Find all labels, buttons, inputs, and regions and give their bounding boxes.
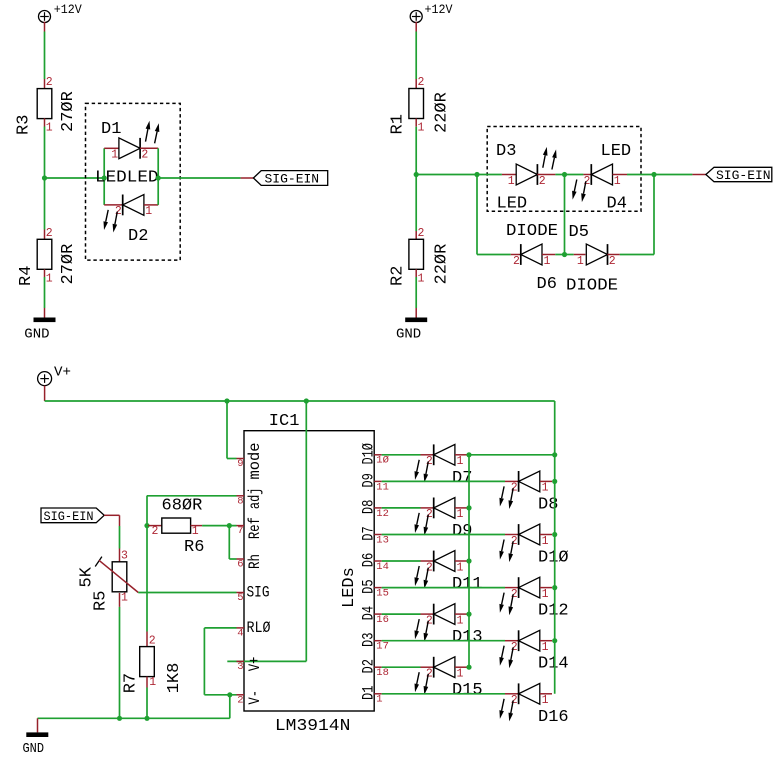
svg-text:2: 2 (237, 694, 243, 706)
IC1 left pin stub 2 (237, 694, 245, 696)
svg-text:1: 1 (542, 482, 549, 495)
ground symbol (top-left) (34, 318, 56, 323)
svg-text:D7: D7 (359, 526, 377, 541)
power symbol V+ (38, 372, 52, 386)
svg-text:2: 2 (46, 76, 53, 89)
wire V+ rail (45, 400, 555, 402)
pin 2 stub of LED D12 (505, 587, 519, 589)
svg-text:1: 1 (542, 694, 549, 707)
svg-text:1: 1 (418, 273, 425, 286)
junction R5 at GND rail (117, 716, 122, 721)
IC1 right pin stub 1 (374, 693, 382, 695)
junction pin2/GND branch (227, 692, 232, 697)
wire D4 to right riser (627, 174, 654, 176)
wire lower row left (477, 254, 511, 256)
wire R2 to GND (415, 277, 417, 308)
svg-text:R7: R7 (122, 673, 141, 693)
pin 1 stub of LED D15 (455, 666, 468, 668)
junction left of LED pair (102, 175, 107, 180)
wiper arrow of R5 (99, 560, 138, 592)
svg-text:DIODE: DIODE (506, 222, 558, 241)
wire middle node to D4 (565, 174, 584, 176)
svg-text:2: 2 (609, 255, 616, 268)
svg-text:1: 1 (457, 508, 464, 521)
LED D2 (123, 195, 144, 216)
wire pin to LED D14 (382, 640, 505, 642)
svg-text:1: 1 (192, 525, 199, 538)
wire left side of LED pair (103, 148, 105, 205)
svg-text:1: 1 (544, 255, 551, 268)
wire anode rail column 2 / V+ riser (554, 401, 556, 694)
wire pin2 node to GND rail (229, 695, 231, 719)
wire pin 4 down (203, 628, 205, 695)
LED D16 (519, 683, 540, 704)
pin 1 stub of D5 (574, 254, 586, 256)
svg-text:D1Ø: D1Ø (538, 549, 569, 568)
svg-text:3: 3 (121, 550, 128, 563)
LED D8 (519, 471, 540, 492)
junction D14 anode on rail (552, 638, 557, 643)
light arrows of D3 (543, 147, 557, 170)
pin stub of SIG-EIN flag (left) (241, 177, 254, 179)
svg-text:R6: R6 (184, 538, 204, 557)
IC1 left pin stub 9 (237, 458, 245, 460)
LED D13 (434, 604, 455, 625)
wire vertical R6/R7 net (146, 496, 148, 632)
junction middle of D3/D4 (562, 172, 567, 177)
pin 2 stub of R2 (415, 231, 417, 239)
ground symbol (top-right) (405, 318, 427, 323)
svg-text:2: 2 (46, 227, 53, 240)
svg-text:6: 6 (237, 559, 243, 571)
wire R3 to node (44, 127, 46, 179)
IC1 left pin stub 7 (237, 525, 245, 527)
wire pin to LED D8 (382, 480, 505, 482)
svg-text:1: 1 (111, 149, 118, 162)
wire right side of LED pair (157, 148, 159, 205)
svg-text:7: 7 (237, 525, 243, 537)
svg-text:D1: D1 (359, 686, 377, 701)
trimmer arrow end bar of R5 (95, 557, 102, 567)
pin 1 stub of LED D1&#216; (540, 534, 552, 536)
wire R5 wiper to pin 5 (138, 592, 236, 594)
svg-text:2: 2 (418, 227, 425, 240)
svg-text:1: 1 (508, 175, 515, 188)
wire pin to LED D16 (382, 693, 505, 695)
pin 3 stub of R5 (119, 549, 121, 562)
svg-text:R3: R3 (15, 115, 34, 135)
svg-text:R4: R4 (17, 266, 36, 286)
pin 2 stub of R1 (415, 79, 417, 89)
light arrows of D11 (415, 566, 429, 589)
pin 2 stub of D1 (140, 147, 158, 149)
junction D8 anode on rail (552, 479, 557, 484)
wire node to LED network (416, 174, 477, 176)
pin 2 stub of LED D11 (421, 560, 434, 562)
pin wire from +12V symbol (right) (415, 22, 417, 32)
wire R1 to node (415, 127, 417, 175)
IC1 right pin stub 10 (374, 454, 382, 456)
pin 2 stub of D6 (511, 254, 521, 256)
svg-text:2: 2 (152, 525, 159, 538)
svg-text:Rh: Rh (246, 554, 264, 569)
svg-text:D13: D13 (452, 628, 483, 647)
pin 1 stub of R3 (44, 118, 46, 126)
svg-text:D14: D14 (538, 655, 569, 674)
wire LED pair to SIG-EIN flag (158, 177, 240, 179)
wire node to LED pair (45, 177, 105, 179)
junction D15 anode on rail (466, 665, 471, 670)
wire anode rail column 1 (468, 455, 470, 667)
svg-text:68ØR: 68ØR (162, 497, 203, 516)
pin 2 stub of D3 (537, 174, 555, 176)
junction link at V+ rail (552, 452, 557, 457)
junction D1&#216; anode on rail (552, 532, 557, 537)
pin 1 stub of R1 (415, 119, 417, 127)
svg-text:17: 17 (376, 641, 389, 653)
wire branch to pin 6 (229, 558, 236, 560)
pin 2 stub of LED D15 (421, 666, 434, 668)
LED D12 (519, 577, 540, 598)
LED D9 (434, 498, 455, 519)
pin wire from V+ symbol (44, 386, 46, 401)
svg-text:1: 1 (542, 641, 549, 654)
svg-text:RLØ: RLØ (247, 619, 271, 637)
pin 1 stub of R2 (415, 269, 417, 277)
svg-text:R2: R2 (389, 266, 408, 286)
svg-text:D5: D5 (569, 223, 589, 242)
svg-text:2: 2 (418, 76, 425, 89)
net flag SIG-EIN (top-left) (253, 171, 327, 186)
svg-text:1: 1 (457, 614, 464, 627)
pin 1 stub of D3 (502, 174, 516, 176)
wire pin to LED D15 (382, 666, 421, 668)
pin 1 stub of D1 (104, 147, 120, 149)
pin 1 stub of R6 (191, 525, 203, 527)
svg-text:SIG-EIN: SIG-EIN (265, 172, 320, 187)
svg-text:SIG-EIN: SIG-EIN (44, 509, 94, 524)
pin 1 stub of LED D9 (455, 507, 468, 509)
svg-text:GND: GND (24, 326, 49, 342)
wire pin 4 horizontal (204, 627, 236, 629)
wire pin to LED D12 (382, 587, 505, 589)
resistor R4 body (37, 239, 52, 269)
wire R4 to GND (44, 277, 46, 308)
svg-text:D6: D6 (359, 553, 377, 568)
IC1 right pin stub 13 (374, 534, 382, 536)
svg-text:D6: D6 (537, 275, 557, 294)
wire flag down to R5 (119, 526, 121, 549)
svg-text:1K8: 1K8 (165, 663, 184, 694)
LED D4 (591, 164, 612, 185)
svg-text:1: 1 (614, 175, 621, 188)
wire branch down to pin 6 row (228, 526, 230, 559)
svg-text:4: 4 (237, 627, 243, 639)
wire D6 to middle (555, 254, 564, 256)
wire +12V to R3 (44, 32, 46, 80)
light arrows of D1&#216; (499, 540, 513, 563)
pin 1 stub of D6 (542, 254, 555, 256)
resistor R2 body (409, 239, 424, 269)
junction at left drop (474, 172, 479, 177)
svg-text:D1: D1 (101, 120, 121, 139)
resistor R7 body (140, 647, 155, 677)
wire pin to LED D1&#216; (382, 534, 505, 536)
light arrows of D7 (415, 460, 429, 483)
svg-text:D8: D8 (359, 500, 377, 515)
light arrows of D14 (499, 646, 513, 669)
svg-text:18: 18 (376, 667, 389, 679)
wire D3 to middle node (555, 174, 564, 176)
svg-text:5: 5 (237, 592, 243, 604)
svg-text:2: 2 (539, 175, 546, 188)
svg-text:V+: V+ (246, 657, 264, 672)
junction at R1/R2 node (414, 172, 419, 177)
light arrows of D13 (415, 619, 429, 642)
wire pin to LED D13 (382, 613, 421, 615)
wire to pin 9 (227, 458, 237, 460)
LED D14 (519, 630, 540, 651)
svg-text:V-: V- (246, 690, 264, 705)
dashed frame around D3/D4 (487, 127, 641, 212)
junction V+ rail to pin9 (224, 398, 229, 403)
IC1 left pin stub 4 (237, 627, 245, 629)
diode D6 (521, 244, 542, 265)
light arrows of D4 (572, 180, 586, 203)
light arrows of D12 (499, 593, 513, 616)
wire +12V to R1 (415, 32, 417, 80)
svg-text:D1Ø: D1Ø (359, 443, 377, 465)
svg-text:DIODE: DIODE (566, 277, 618, 296)
wire down to pin 3 (305, 401, 307, 661)
svg-text:1: 1 (145, 205, 152, 218)
svg-text:1Ø: 1Ø (376, 455, 389, 467)
LED D15 (434, 657, 455, 678)
wire down to pin 9 (226, 401, 228, 459)
svg-text:27ØR: 27ØR (59, 91, 78, 132)
wire middle to D5 (565, 254, 574, 256)
pin 2 stub of LED D16 (505, 693, 519, 695)
wire R5 to GND rail (119, 607, 121, 718)
resistor R3 body (37, 89, 52, 119)
junction V+ rail to pin3 (304, 398, 309, 403)
junction D13 anode on rail (466, 612, 471, 617)
wire to pin 3 (227, 660, 306, 662)
svg-text:R1: R1 (389, 114, 408, 134)
pin 2 stub of LED D9 (421, 507, 434, 509)
resistor R1 body (409, 89, 424, 119)
svg-text:GND: GND (396, 326, 421, 342)
svg-text:adj: adj (246, 488, 264, 510)
pin 1 stub of R4 (44, 269, 46, 277)
pin 2 stub of R3 (44, 79, 46, 89)
svg-text:1: 1 (121, 592, 128, 605)
IC1 right pin stub 16 (374, 613, 382, 615)
svg-text:5K: 5K (78, 566, 97, 587)
IC1 right pin stub 11 (374, 480, 382, 482)
pin stub corner at flag (119, 515, 121, 526)
wire link row1 to V+ rail (469, 454, 555, 456)
wire right riser down (653, 175, 655, 255)
light arrows of D2 (104, 210, 118, 233)
wire lower row right (620, 254, 654, 256)
svg-text:SIG: SIG (247, 584, 270, 602)
svg-text:3: 3 (237, 661, 243, 673)
svg-text:2: 2 (149, 635, 156, 648)
dashed frame around D1/D2 (86, 103, 181, 260)
svg-text:1: 1 (542, 535, 549, 548)
svg-text:14: 14 (376, 561, 389, 573)
LED D3 (516, 164, 537, 185)
pin 2 stub of R4 (44, 230, 46, 240)
svg-text:D4: D4 (607, 195, 627, 214)
svg-text:SIG-EIN: SIG-EIN (716, 168, 771, 183)
svg-text:D2: D2 (128, 227, 148, 246)
pin wire from +12V symbol (44, 22, 46, 32)
pin 1 stub of LED D13 (455, 613, 468, 615)
svg-text:1: 1 (457, 561, 464, 574)
svg-text:1: 1 (46, 122, 53, 135)
junction middle of lower row (562, 252, 567, 257)
svg-text:V+: V+ (54, 365, 71, 381)
svg-text:+12V: +12V (54, 2, 82, 17)
ground symbol (bottom) (26, 732, 48, 737)
diode D5 (586, 244, 607, 265)
junction D12 anode on rail (552, 585, 557, 590)
resistor R6 body (162, 518, 191, 533)
wire GND rail (38, 717, 230, 719)
pin 2 stub of LED D8 (505, 480, 519, 482)
svg-text:D3: D3 (359, 632, 377, 647)
svg-text:1: 1 (457, 455, 464, 468)
svg-text:2: 2 (513, 255, 520, 268)
LED D1&#216; (519, 524, 540, 545)
svg-text:LEDs: LEDs (340, 567, 359, 608)
junction right of LED pair (156, 175, 161, 180)
pin stub of bottom SIG-EIN flag (104, 514, 119, 516)
svg-text:1: 1 (457, 668, 464, 681)
svg-text:15: 15 (376, 588, 389, 600)
pin 2 stub of LED D7 (421, 454, 434, 456)
LED D7 (434, 444, 455, 465)
svg-text:1: 1 (418, 121, 425, 134)
LED D1 (119, 138, 140, 159)
wire pin to LED D7 (382, 454, 421, 456)
light arrows of D9 (415, 513, 429, 536)
wire middle node down (564, 175, 566, 255)
wire node to R2 (415, 175, 417, 232)
wire R7 to GND rail (146, 688, 148, 719)
net flag SIG-EIN (bottom input) (41, 508, 104, 523)
pin 2 stub of R7 (146, 632, 148, 647)
svg-text:GND: GND (23, 741, 45, 757)
pin 1 stub of R5 (119, 593, 121, 607)
svg-text:8: 8 (237, 495, 243, 507)
svg-text:D16: D16 (538, 708, 569, 727)
IC1 right pin stub 17 (374, 640, 382, 642)
wire node to R4 (44, 178, 46, 230)
IC1 left pin stub 8 (237, 495, 245, 497)
IC1 right pin stub 12 (374, 507, 382, 509)
svg-text:D2: D2 (359, 659, 377, 674)
svg-text:2: 2 (141, 149, 148, 162)
pin 1 stub of LED D12 (540, 587, 552, 589)
potentiometer R5 body (112, 562, 127, 592)
svg-text:9: 9 (237, 458, 243, 470)
svg-text:LEDLED: LEDLED (95, 168, 159, 187)
svg-text:1: 1 (149, 676, 156, 689)
svg-text:IC1: IC1 (269, 412, 300, 431)
svg-text:+12V: +12V (425, 2, 453, 17)
svg-text:D5: D5 (359, 579, 377, 594)
IC1 right pin stub 14 (374, 560, 382, 562)
IC1 right pin stub 18 (374, 666, 382, 668)
svg-text:R5: R5 (91, 591, 110, 611)
op-amp/IC IC1 LM3914N body (244, 431, 374, 711)
pin 1 stub of D2 (144, 204, 158, 206)
pin 2 stub of LED D14 (505, 640, 519, 642)
svg-text:16: 16 (376, 614, 389, 626)
pin stub of SIG-EIN flag (right) (692, 174, 706, 176)
pin 2 stub of D5 (608, 254, 620, 256)
IC1 left pin stub 3 (237, 660, 245, 662)
pin 1 stub of LED D14 (540, 640, 552, 642)
power +12V supply symbol (right) (410, 11, 422, 23)
svg-text:1: 1 (46, 273, 53, 286)
svg-text:mode: mode (246, 443, 264, 480)
svg-text:27ØR: 27ØR (59, 244, 78, 285)
net flag SIG-EIN (top-right) (706, 167, 772, 181)
IC1 left pin stub 5 (237, 592, 245, 594)
svg-text:D4: D4 (359, 606, 377, 621)
svg-text:D11: D11 (452, 575, 483, 594)
svg-text:D12: D12 (538, 602, 569, 621)
svg-text:D3: D3 (496, 142, 516, 161)
pin 1 stub of LED D8 (540, 480, 552, 482)
junction pin7 net branch (227, 523, 232, 528)
pin stub of GND symbol (top-left) (44, 308, 46, 318)
junction at right riser (651, 172, 656, 177)
svg-text:22ØR: 22ØR (433, 92, 452, 133)
wire R6 to pin 7 (202, 525, 236, 527)
pin 2 stub of D2 (104, 204, 123, 206)
svg-text:LED: LED (497, 195, 528, 214)
pin stub of GND symbol (bottom) (37, 718, 39, 732)
LED D11 (434, 551, 455, 572)
wire pin8 horizontal (147, 495, 237, 497)
svg-text:13: 13 (376, 534, 389, 546)
svg-text:LED: LED (601, 142, 632, 161)
junction R7 at GND rail (144, 716, 149, 721)
IC1 right pin stub 15 (374, 587, 382, 589)
svg-text:12: 12 (376, 508, 389, 520)
light arrows of D15 (415, 672, 429, 695)
svg-text:LM3914N: LM3914N (275, 717, 351, 736)
IC1 left pin stub 6 (237, 558, 245, 560)
junction R6 pin2 on vertical net (144, 523, 149, 528)
pin 2 stub of LED D1&#216; (505, 534, 519, 536)
svg-text:D9: D9 (359, 473, 377, 488)
svg-text:1: 1 (542, 588, 549, 601)
pin 2 stub of R6 (148, 525, 162, 527)
pin 2 stub of LED D13 (421, 613, 434, 615)
pin 1 stub of LED D7 (455, 454, 468, 456)
junction at R3/R4/LED node (42, 175, 47, 180)
junction D11 anode on rail (466, 558, 471, 563)
power +12V supply symbol (39, 11, 51, 23)
svg-text:11: 11 (376, 481, 389, 493)
wire to pin 2 row (204, 694, 236, 696)
